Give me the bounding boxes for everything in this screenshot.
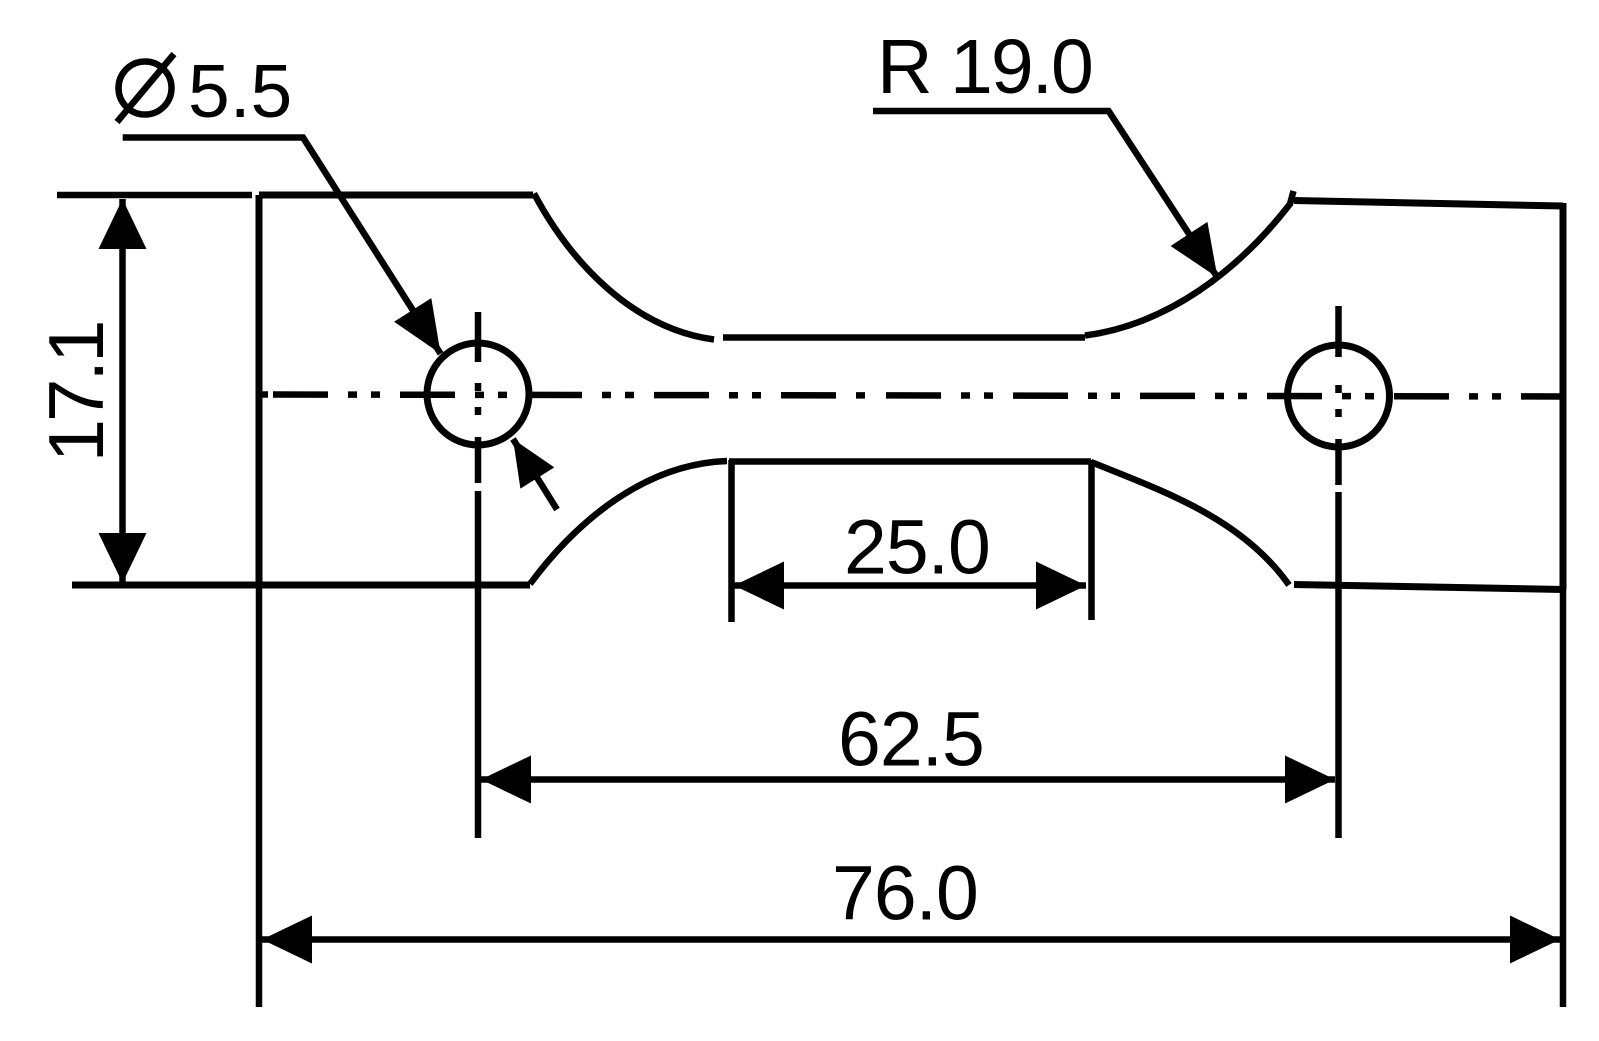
specimen outline: left edge	[256, 195, 263, 585]
specimen outline: neck top line	[723, 334, 1085, 341]
arrowhead 62.5 right	[1285, 756, 1335, 804]
specimen outline: right edge	[1560, 203, 1567, 590]
specimen outline: bottom-left fillet R19	[530, 461, 727, 584]
76.0 right extension line	[1560, 589, 1567, 1007]
arrowhead R 19.0 leader	[1171, 222, 1218, 278]
25.0 left extension line	[728, 460, 735, 622]
arrowhead small leader at left hole	[513, 439, 554, 489]
svg-text:R 19.0: R 19.0	[877, 24, 1092, 110]
svg-text:17.1: 17.1	[32, 323, 120, 463]
hole left (diameter 5.5)	[427, 343, 529, 445]
arrowhead 17.1 up	[99, 199, 147, 249]
specimen outline: top-left fillet R19	[534, 194, 714, 340]
label dia 5.5 symbol	[117, 54, 174, 122]
arrowhead 76.0 left	[262, 916, 312, 964]
specimen outline: neck bottom line	[729, 458, 1091, 465]
arrowhead dia 5.5 leader	[394, 298, 441, 354]
17.1 dimension line	[119, 199, 126, 583]
76.0 left extension line	[256, 585, 263, 1007]
dia 5.5 leader line	[123, 138, 441, 354]
76.0 dimension line	[262, 936, 1560, 943]
specimen outline: bottom-right grip edge	[1294, 585, 1563, 590]
horizontal centerline start nub	[259, 391, 268, 398]
svg-text:76.0: 76.0	[832, 851, 978, 937]
specimen outline: top-right fillet R19	[1085, 191, 1294, 336]
arrowhead 62.5 left	[481, 756, 531, 804]
arrowhead 76.0 right	[1510, 916, 1560, 964]
svg-text:25.0: 25.0	[844, 505, 990, 591]
62.5 dimension line	[481, 776, 1335, 783]
R 19.0 leader line	[873, 111, 1218, 278]
specimen outline: bottom-right fillet R19	[1091, 462, 1289, 585]
arrowhead 25.0 left	[734, 562, 784, 610]
svg-text:62.5: 62.5	[838, 697, 984, 783]
small leader arrow tail at left hole	[513, 439, 557, 510]
25.0 dimension line	[734, 582, 1086, 589]
specimen outline: top-right grip edge	[1294, 201, 1563, 207]
specimen outline: top-left grip edge	[259, 192, 533, 199]
horizontal centerline right part	[886, 395, 1563, 396]
17.1 top extension line	[57, 192, 252, 199]
arrowhead 17.1 down	[99, 533, 147, 583]
vertical centerline right hole	[1335, 306, 1342, 838]
arrowhead 25.0 right	[1036, 562, 1086, 610]
specimen outline: bottom-left grip edge + 17.1 extension line	[72, 582, 530, 589]
horizontal centerline (dash-dot-dot)	[259, 391, 866, 398]
svg-text:5.5: 5.5	[188, 49, 292, 133]
vertical centerline left hole	[475, 312, 482, 838]
25.0 right extension line	[1088, 460, 1095, 620]
hole right (diameter 5.5)	[1288, 345, 1390, 447]
